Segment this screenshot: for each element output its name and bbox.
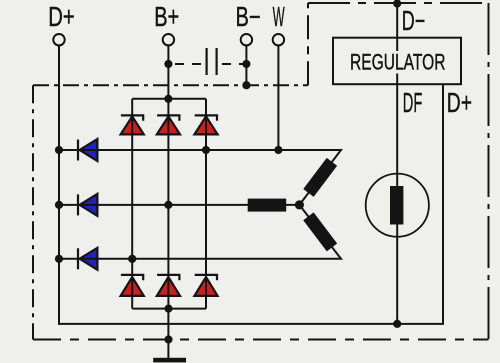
terminal B- <box>241 34 252 45</box>
wire terminal B- to housing <box>245 45 247 85</box>
diode D2 positive rectifier <box>157 115 180 134</box>
svg-text:D−: D− <box>402 5 425 36</box>
junction exciter row 1 at D+ bus <box>55 146 63 154</box>
wire phase 2 <box>59 204 299 206</box>
svg-text:W: W <box>273 1 285 32</box>
ground symbol <box>153 358 186 363</box>
junction rotor lead at D+ bus <box>393 320 401 328</box>
junction exciter row 2 at D+ bus <box>55 201 63 209</box>
diode D8 exciter <box>78 194 97 216</box>
svg-text:REGULATOR: REGULATOR <box>350 49 446 74</box>
housing border bottom segment <box>33 339 489 341</box>
housing border left segment <box>32 85 34 339</box>
diode D5 negative rectifier <box>157 275 180 296</box>
junction W at phase 1 <box>274 146 282 154</box>
wire D- from housing to regulator <box>396 3 398 51</box>
wire B+ column through rectifier to ground <box>167 45 169 358</box>
wire phase 1 with upper stator diagonal <box>59 150 341 205</box>
wire DF from regulator to rotor <box>396 74 398 187</box>
stator winding L3 lower diagonal <box>303 212 337 251</box>
svg-text:B−: B− <box>236 1 261 32</box>
stator winding L2 horizontal <box>248 199 287 212</box>
wire rectifier column 3 <box>205 99 207 309</box>
stator winding L1 upper diagonal <box>303 158 337 197</box>
junction B- at housing <box>242 81 250 89</box>
wire D+ bus from terminal down along bottom and up to regulator D+ pin <box>59 45 443 324</box>
junction phase 2 at column 2 <box>164 201 172 209</box>
junction D- at housing <box>393 0 401 8</box>
junction B- capacitor tap <box>242 60 250 68</box>
rotor slip ring circle <box>366 174 429 237</box>
capacitor C1 right plate <box>216 48 218 75</box>
housing border top-left segment <box>33 84 308 86</box>
terminal W <box>273 34 284 45</box>
svg-text:D+: D+ <box>447 87 472 118</box>
rotor field winding F1 <box>390 186 403 225</box>
junction exciter row 3 at D+ bus <box>55 255 63 263</box>
svg-text:D+: D+ <box>48 1 74 32</box>
housing border notch vertical <box>307 3 309 85</box>
housing border top segment <box>308 2 489 4</box>
svg-text:DF: DF <box>403 87 423 118</box>
wire rotor bottom lead <box>396 224 398 324</box>
wire capacitor lead to B- dashed <box>222 63 249 65</box>
junction B+ at positive bus <box>164 95 172 103</box>
junction B+ capacitor tap <box>164 60 172 68</box>
node star point <box>295 200 304 209</box>
svg-text:B+: B+ <box>154 1 179 32</box>
diode D9 exciter <box>78 248 97 270</box>
wire rectifier column 1 <box>131 99 133 309</box>
wire rectifier negative bus <box>132 308 206 310</box>
wire phase 3 with lower stator diagonal <box>59 205 341 259</box>
wire terminal W to phase 1 <box>277 45 279 150</box>
capacitor C1 left plate <box>206 48 208 75</box>
junction phase 3 at column 1 <box>128 255 136 263</box>
terminal D+ <box>53 34 64 45</box>
diode D4 negative rectifier <box>121 275 144 296</box>
housing border right segment <box>488 3 490 340</box>
diode D3 positive rectifier <box>194 115 217 134</box>
regulator U1 box <box>333 38 461 84</box>
terminal B+ <box>163 34 174 45</box>
wire capacitor lead from B+ dashed <box>175 63 206 65</box>
diode D7 exciter <box>78 139 97 161</box>
junction negative bus at ground column <box>164 305 172 313</box>
wire rectifier positive bus <box>132 98 206 100</box>
diode D6 negative rectifier <box>194 275 217 296</box>
diode D1 positive rectifier <box>121 115 144 134</box>
junction phase 1 at column 3 <box>202 146 210 154</box>
junction ground at housing <box>164 335 172 343</box>
